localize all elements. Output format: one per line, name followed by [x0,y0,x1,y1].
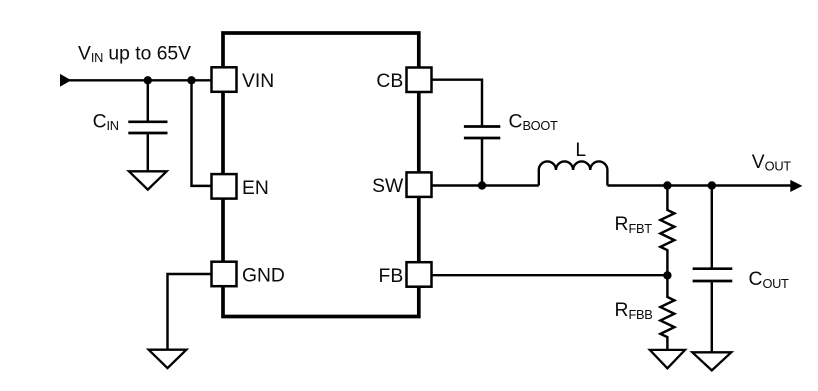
svg-text:GND: GND [242,265,285,286]
svg-text:VIN: VIN [242,71,274,92]
svg-text:EN: EN [242,178,269,199]
svg-text:CB: CB [376,71,403,92]
svg-text:FB: FB [379,266,404,287]
svg-text:L: L [575,140,586,161]
svg-text:SW: SW [372,176,404,197]
